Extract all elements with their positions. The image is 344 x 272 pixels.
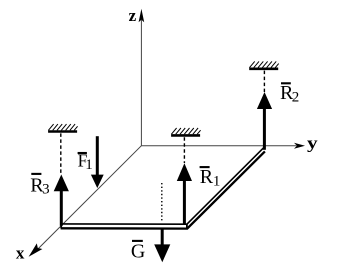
svg-text:y: y — [307, 135, 318, 154]
svg-text:1: 1 — [213, 173, 221, 189]
svg-text:3: 3 — [42, 181, 50, 197]
svg-text:G: G — [131, 241, 145, 263]
svg-text:z: z — [129, 6, 137, 25]
svg-text:2: 2 — [292, 90, 300, 106]
svg-text:1: 1 — [85, 157, 93, 173]
svg-text:R: R — [200, 166, 214, 188]
svg-text:x: x — [16, 244, 25, 263]
